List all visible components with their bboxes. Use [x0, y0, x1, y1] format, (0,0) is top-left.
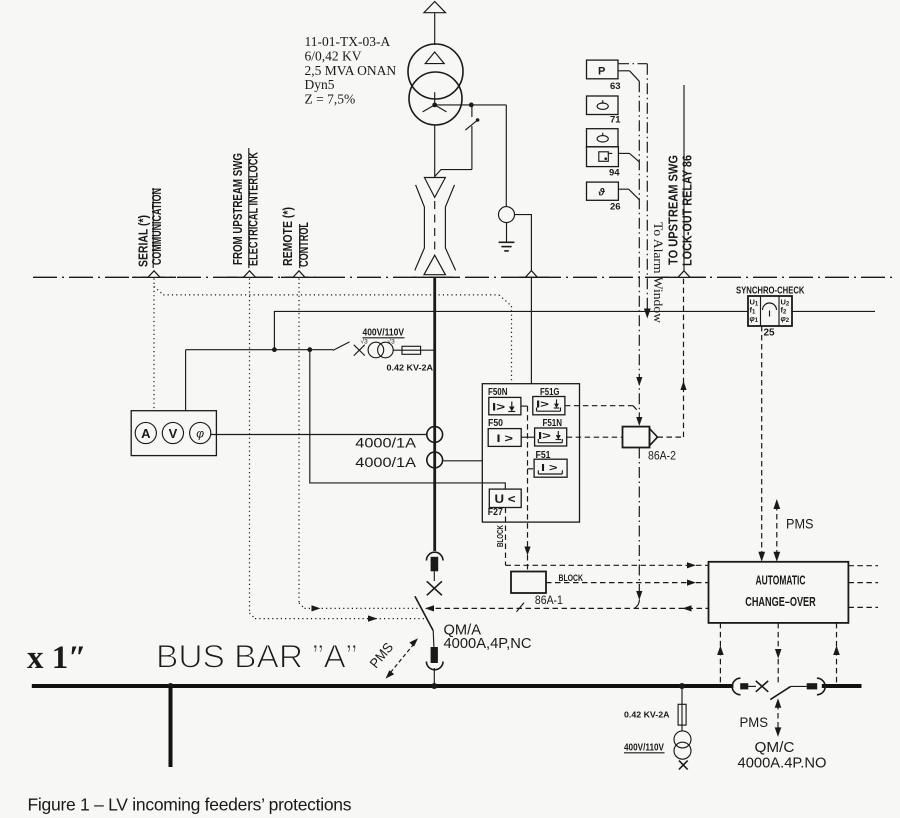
relay 94: [587, 129, 621, 179]
relay 26: [587, 182, 621, 212]
svg-text:CONTROL: CONTROL: [296, 222, 311, 267]
wire: neutral branch from wye point: [435, 103, 507, 108]
PMS arrow at QM/A: [367, 638, 418, 678]
svg-text:FROM UPSTREAM SWG: FROM UPSTREAM SWG: [230, 153, 245, 265]
wire: U< voltage tap: [310, 350, 506, 489]
svg-text:I>: I>: [492, 402, 505, 414]
label TO UPSTREAM SWG LOCK-OUT RELAY 86: [666, 85, 695, 271]
relay F51G: [533, 387, 565, 415]
svg-text:Figure 1 – LV incoming feeders: Figure 1 – LV incoming feeders’ protecti…: [28, 795, 352, 815]
fuse 0.42 KV-2A (bottom): [624, 704, 686, 731]
breaker QM/C left drawout contact: [732, 678, 748, 695]
svg-text:25: 25: [764, 328, 776, 339]
wire: toroid CT secondary to relay box: [515, 215, 532, 384]
label SERIAL (*) COMMUNICATION: [136, 188, 165, 268]
breaker QM/A lower drawout contact: [426, 647, 443, 686]
svg-text:BUS BAR ”A”: BUS BAR ”A”: [156, 639, 357, 675]
automatic change-over unit: [709, 562, 849, 623]
boundary dash-dot line: [33, 276, 897, 278]
wire: 86A-2 output up to upstream lock-out: [658, 279, 687, 438]
node: boundary crossing REMOTE: [293, 271, 305, 278]
ground: [499, 242, 515, 251]
wire: 86A-1 block output to changeover: [546, 573, 709, 586]
wire: internal dashed bus to F51 and out to 86A-1: [524, 406, 534, 571]
svg-text:U <: U <: [495, 492, 516, 506]
svg-text:A: A: [141, 426, 151, 441]
svg-text:√3: √3: [361, 338, 369, 346]
svg-text:To Alarm Window: To Alarm Window: [651, 222, 665, 323]
outgoing feeder stub: [169, 686, 173, 767]
wire: F27 block line down and to changeover: [506, 508, 709, 569]
wire: F50N to internal bus: [521, 405, 528, 407]
wire: voltage bus 400/110 row: [186, 347, 333, 410]
lock-out relay 86A-2: [623, 427, 677, 463]
open secondary X (bottom VT): [679, 761, 688, 770]
CT 4000/1A #1: [427, 427, 443, 443]
earthing conductor with toroidal CT: [499, 105, 515, 242]
svg-text:4000A.4P.NO: 4000A.4P.NO: [738, 755, 827, 772]
svg-text:ELECTRICAL INTERLOCK: ELECTRICAL INTERLOCK: [246, 152, 261, 266]
wire: bottom VT tap: [681, 686, 683, 704]
svg-text:86A-2: 86A-2: [648, 451, 676, 463]
node: boundary crossing of earth-CT wire: [525, 271, 537, 278]
svg-text:6/0,42 KV: 6/0,42 KV: [305, 48, 362, 63]
svg-text:P: P: [598, 66, 605, 78]
busduct flare symbol: [415, 178, 456, 275]
label QM/C 4000A.4P.NO: [738, 739, 827, 772]
wire: main line LV side (bold): [433, 277, 436, 551]
wire: meters to CT1: [211, 434, 427, 436]
svg-text:26: 26: [610, 202, 621, 213]
svg-text:REMOTE (*): REMOTE (*): [280, 207, 295, 266]
transformer 400V/110V (bottom): [624, 731, 691, 759]
label QM/A 4000A,4P,NC: [444, 622, 532, 653]
svg-text:86A-1: 86A-1: [535, 595, 563, 607]
svg-text:0.42 KV-2A: 0.42 KV-2A: [387, 363, 434, 373]
breaker QM/A: [415, 571, 442, 647]
breaker QM/C: [748, 681, 806, 700]
breaker QM/C right drawout contact: [807, 678, 826, 695]
svg-text:0.42 KV-2A: 0.42 KV-2A: [624, 710, 670, 720]
svg-text:PMS: PMS: [367, 640, 396, 671]
arrow on interlock line: [368, 615, 378, 621]
label FROM UPSTREAM SWG ELECTRICAL INTERLOCK: [230, 148, 261, 268]
svg-text:PMS: PMS: [740, 714, 769, 730]
svg-text:Dyn5: Dyn5: [305, 77, 335, 92]
relay F50N: [488, 387, 521, 415]
lock-out relay 86A-1: [511, 572, 563, 612]
svg-text:63: 63: [610, 81, 621, 92]
svg-text:√3: √3: [388, 338, 396, 346]
wire: PMS link to changeover: [773, 499, 780, 562]
breaker QM/A upper drawout contact: [426, 552, 443, 571]
relay F27 undervoltage U<: [488, 489, 521, 518]
svg-text:BLOCK: BLOCK: [495, 524, 505, 547]
meter box A V phi: [131, 411, 216, 456]
svg-text:φ: φ: [196, 427, 204, 441]
relay F50: [488, 418, 521, 446]
svg-text:2,5 MVA ONAN: 2,5 MVA ONAN: [305, 63, 397, 78]
svg-text:AUTOMATIC: AUTOMATIC: [756, 573, 806, 588]
wire: to alarm window dash-dot line: [618, 64, 651, 319]
svg-text:11-01-TX-03-A: 11-01-TX-03-A: [305, 34, 391, 49]
wire: remote control dotted line to QM/A: [305, 605, 421, 611]
svg-text:Z = 7,5%: Z = 7,5%: [305, 92, 356, 107]
wire: 86A-2 alarm continuation down to trip line: [634, 448, 642, 609]
transformer T1 (Dyn5): [408, 44, 463, 125]
relay 63 (P): [587, 60, 621, 92]
svg-text:71: 71: [610, 115, 621, 126]
svg-text:400V/110V: 400V/110V: [624, 743, 664, 754]
svg-text:x 1″: x 1″: [27, 640, 86, 676]
node: boundary crossing TO UPSTREAM SWG: [678, 271, 690, 278]
svg-text:94: 94: [609, 168, 620, 179]
svg-text:CHANGE–OVER: CHANGE–OVER: [745, 594, 816, 609]
synchro-check relay 25: [736, 286, 805, 339]
relay F51N: [535, 418, 567, 446]
wire: serial communication dotted line: [154, 279, 512, 411]
svg-text:TO UPSTREAM SWG: TO UPSTREAM SWG: [666, 155, 681, 265]
svg-text:BLOCK: BLOCK: [559, 573, 584, 583]
svg-text:F50N: F50N: [488, 387, 508, 398]
label REMOTE (*) CONTROL: [280, 207, 311, 268]
svg-text:I >: I >: [497, 433, 514, 445]
svg-text:4000/1A: 4000/1A: [355, 454, 416, 470]
svg-text:LOCK-OUT RELAY 86: LOCK-OUT RELAY 86: [680, 155, 695, 266]
svg-text:V: V: [169, 426, 178, 441]
wire: synchro-check voltage wire: [274, 311, 875, 349]
svg-text:F27: F27: [488, 507, 503, 518]
relay F51: [534, 450, 567, 477]
transformer 400V/110V VT: [361, 338, 396, 358]
svg-text:ϑ: ϑ: [598, 187, 606, 199]
wire: changeover trip line to QM/A: [425, 605, 709, 611]
wire: F51N trip to 86A-2: [567, 436, 623, 438]
wire: CT2 secondary to relay box: [443, 460, 483, 462]
svg-text:I>: I>: [538, 430, 551, 442]
wire: F50 to F51N: [521, 436, 534, 438]
CT 4000/1A #2: [427, 452, 443, 468]
wire: changeover to bus links: [717, 623, 840, 684]
fuse 0.42 KV-2A: [387, 346, 435, 372]
svg-text:4000/1A: 4000/1A: [355, 434, 416, 450]
disconnect switch on VT tapping: [435, 105, 480, 177]
svg-text:PMS: PMS: [786, 516, 814, 532]
svg-text:F50: F50: [488, 418, 503, 429]
wire: changeover right side stubs: [848, 566, 878, 608]
relay 71: [587, 96, 622, 126]
svg-text:400V/110V: 400V/110V: [363, 328, 405, 339]
svg-text:QM/C: QM/C: [755, 739, 795, 756]
wire: F51G trip to lock-out bus: [565, 406, 640, 413]
transformer T1 11-01-TX-03-A label: [305, 34, 397, 107]
wire: FROM UPSTREAM dotted line down to interlock: [250, 279, 426, 619]
wire: synchro-check output to changeover: [758, 326, 765, 562]
svg-text:4000A,4P,NC: 4000A,4P,NC: [444, 635, 532, 652]
wire: main line HV side: [434, 125, 436, 178]
wire: incoming supply arrow at top: [424, 2, 446, 46]
svg-text:I>: I>: [536, 399, 549, 411]
wire: alarm dash-dot bus from relays 63 94 26: [618, 71, 642, 426]
PMS arrow at QM/C: [775, 698, 782, 737]
switch on VT secondary: [333, 342, 365, 356]
node: boundary crossing SERIAL: [148, 271, 160, 278]
protection relay box: [482, 384, 579, 522]
wire: REMOTE CONTROL dotted line: [299, 279, 305, 609]
svg-text:SYNCHRO-CHECK: SYNCHRO-CHECK: [736, 286, 805, 297]
node: boundary crossing FROM UPSTREAM: [244, 271, 256, 278]
svg-text:I >: I >: [541, 462, 558, 474]
bus bar A: [32, 683, 862, 689]
svg-text:COMMUNICATION: COMMUNICATION: [149, 188, 164, 265]
label 400V/110V: [363, 328, 405, 339]
